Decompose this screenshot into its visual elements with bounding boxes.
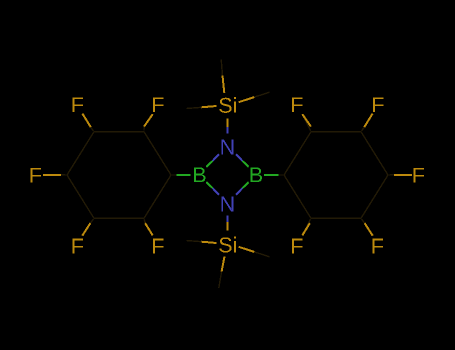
bond C-B left (172, 174, 191, 176)
bond C-F left ring bottom-left (82, 219, 93, 236)
bond C-F left ring bottom-right (144, 219, 153, 235)
benzene ring right C-C bonds (284, 132, 388, 219)
atom F5 left ring bottom-right (153, 239, 164, 254)
atom F8 right ring para (414, 168, 425, 183)
atom Si1 (219, 97, 236, 113)
ring bond B2-N2 (236, 182, 249, 195)
bond C-F left ring para (43, 174, 66, 176)
atom F4 left ring bottom-left (73, 239, 84, 254)
atom N1 (221, 140, 233, 155)
atom F3 left ring para (31, 168, 42, 183)
bond C-F right ring bottom-left (302, 219, 310, 235)
benzene ring left C-C bonds (67, 132, 171, 219)
bond C-F left ring top-left (82, 114, 93, 131)
ring bond B1-N1 (206, 154, 219, 167)
bond C-F right ring top-right (362, 114, 373, 131)
atom F9 right ring bottom-left (292, 239, 303, 254)
atom B2 (251, 167, 262, 182)
bond C-F right ring top-left (302, 114, 311, 131)
atom F1 left ring top-left (73, 97, 84, 112)
Si2 methyl down (219, 257, 225, 289)
atom F6 right ring top-left (292, 97, 303, 112)
ring bond B1-N2 (206, 182, 219, 195)
bond C-B right (264, 174, 283, 176)
Si1 methyl left (187, 106, 217, 109)
atom F2 left ring top-right (153, 97, 164, 112)
atom Si2 (219, 237, 236, 253)
atom B1 (194, 167, 205, 182)
ring bond B2-N1 (236, 154, 249, 167)
Si1 methyl up (221, 60, 224, 94)
bond C-F right ring bottom-right (362, 219, 373, 236)
atom F10 right ring bottom-right (373, 239, 384, 254)
bond N1-Si1 (227, 119, 229, 134)
bond N2-Si2 (227, 216, 229, 231)
atom N2 (221, 197, 233, 212)
bond C-F right ring para (389, 174, 412, 176)
bond C-F left ring top-right (144, 114, 153, 131)
atom F7 right ring top-right (373, 97, 384, 112)
Si2 methyl right (239, 247, 270, 257)
Si2 methyl left (187, 241, 217, 244)
Si1 methyl right (239, 92, 270, 102)
